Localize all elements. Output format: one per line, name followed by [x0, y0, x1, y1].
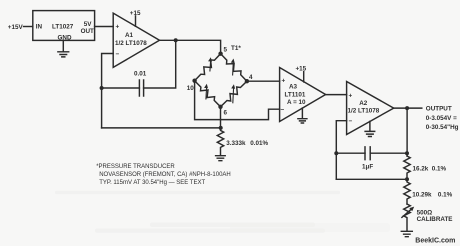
- svg-text:1/2 LT1078: 1/2 LT1078: [115, 40, 147, 47]
- wire A2 inverting input to feedback node: [336, 121, 346, 180]
- capacitor C2 1uF plates: [365, 147, 370, 160]
- svg-text:0.01: 0.01: [134, 70, 147, 77]
- ground (A2): [365, 131, 375, 136]
- svg-text:0.1%: 0.1%: [438, 192, 453, 199]
- wire bridge node 4 to A3 + input: [247, 80, 280, 82]
- wire A1 output to bridge top node 5: [160, 40, 221, 53]
- svg-text:OUT: OUT: [81, 28, 94, 35]
- resistor R1 3.333k: [217, 128, 223, 155]
- node 5 (bridge top): [218, 52, 222, 56]
- bridge arm arrow 5-10: [208, 57, 212, 71]
- svg-text:0-30.54"Hg: 0-30.54"Hg: [426, 124, 459, 131]
- transducer T1 bridge arm 5-10: [195, 54, 221, 81]
- svg-text:TYP. 115mV AT 30.54"Hg — SEE T: TYP. 115mV AT 30.54"Hg — SEE TEXT: [99, 180, 205, 186]
- potentiometer arrow head: [409, 207, 414, 212]
- svg-text:0.01%: 0.01%: [250, 140, 268, 147]
- junction A2 output: [405, 106, 409, 110]
- wire bridge node 6 down to 3.333k junction: [220, 107, 222, 128]
- svg-text:A = 10: A = 10: [287, 99, 306, 106]
- op-amp A1 1/2 LT1078 triangle: [113, 13, 159, 67]
- svg-text:5: 5: [224, 47, 228, 54]
- wire A1 inverting input to feedback: [102, 54, 114, 128]
- svg-text:0-3.054V =: 0-3.054V =: [426, 115, 457, 122]
- svg-text:*PRESSURE TRANSDUCER: *PRESSURE TRANSDUCER: [96, 164, 175, 170]
- junction feedback / 3.333k: [219, 126, 223, 130]
- svg-text:GND: GND: [58, 34, 72, 41]
- svg-text:NOVASENSOR (FREMONT, CA) #NPH-: NOVASENSOR (FREMONT, CA) #NPH-8-100AH: [99, 172, 231, 178]
- svg-text:−: −: [349, 118, 353, 125]
- resistor R3 10.29k: [404, 179, 410, 204]
- bridge arm arrow 4-6: [231, 84, 235, 103]
- junction cap left tap: [100, 86, 104, 90]
- wire regulator GND stem: [62, 40, 64, 51]
- op-amp A3 LT1101 triangle: [280, 68, 326, 122]
- svg-text:4: 4: [249, 74, 253, 81]
- wire +15 supply stub A1: [135, 16, 137, 26]
- node 6 (bridge bottom): [218, 105, 222, 109]
- transducer T1 bridge arm 4-6: [221, 81, 247, 107]
- svg-text:16.2k: 16.2k: [413, 166, 429, 173]
- wire +15V input to regulator: [24, 26, 33, 28]
- op-amp A2 1/2 LT1078 triangle: [347, 82, 394, 135]
- svg-text:BeekIC.com: BeekIC.com: [415, 238, 455, 245]
- svg-text:+: +: [282, 78, 286, 85]
- svg-text:A1: A1: [125, 32, 134, 39]
- ground (output divider): [401, 231, 412, 236]
- svg-text:CALIBRATE: CALIBRATE: [417, 216, 453, 223]
- svg-text:1μF: 1μF: [362, 164, 373, 171]
- resistor R2 16.2k: [404, 156, 410, 179]
- node 10 (bridge left): [192, 79, 196, 83]
- svg-text:LT1027: LT1027: [52, 24, 74, 31]
- ground (A3): [298, 119, 307, 123]
- capacitor C1 0.01 plates: [139, 80, 143, 96]
- transducer T1 bridge arm 5-4: [221, 54, 247, 81]
- junction 1uF left: [334, 151, 338, 155]
- junction 16.2k / 10.29k: [405, 177, 409, 181]
- svg-text:T1*: T1*: [231, 45, 241, 52]
- wire output node down to 16.2k: [406, 108, 408, 156]
- svg-text:IN: IN: [36, 24, 43, 31]
- svg-text:OUTPUT: OUTPUT: [426, 106, 452, 113]
- bridge arm arrow 10-6: [204, 84, 208, 100]
- wire A3 output to A2 + input: [326, 94, 347, 96]
- wire A3 ground stem: [301, 108, 303, 118]
- svg-text:−: −: [281, 107, 285, 114]
- svg-text:−: −: [116, 51, 120, 58]
- wire A2 ground stem: [369, 121, 371, 130]
- wire 1uF cap left lead: [336, 152, 365, 154]
- junction node A1 output / cap tap: [174, 38, 178, 42]
- svg-text:+15: +15: [130, 10, 141, 17]
- svg-text:6: 6: [224, 110, 228, 117]
- svg-text:A3: A3: [289, 84, 298, 91]
- svg-text:+: +: [349, 93, 353, 100]
- potentiometer R4 500 ohm CALIBRATE: [404, 204, 411, 231]
- svg-text:10: 10: [187, 85, 195, 92]
- wire A2 output: [394, 107, 422, 109]
- wire A1 feedback bottom run to 3.333k node: [102, 127, 221, 129]
- junction 1uF right: [405, 151, 409, 155]
- svg-text:1/2 LT1078: 1/2 LT1078: [348, 107, 380, 114]
- svg-text:+: +: [116, 24, 120, 31]
- wire regulator OUT to A1 + input: [95, 26, 114, 28]
- bridge arm arrow 5-4: [231, 59, 235, 76]
- wire bridge node 10 to A3 - input: [195, 81, 280, 120]
- svg-text:+15: +15: [296, 66, 307, 73]
- wire 0.01 cap left lead: [102, 87, 140, 89]
- node 4 (bridge right): [245, 79, 249, 83]
- transducer T1 bridge arm 10-6: [195, 81, 221, 107]
- svg-text:0.1%: 0.1%: [432, 166, 447, 173]
- wire 0.01 cap right lead up to A1 output: [144, 40, 176, 88]
- svg-text:3.333k: 3.333k: [226, 140, 246, 147]
- wire +15 supply stub A3: [303, 72, 305, 82]
- potentiometer wiper arrow: [402, 209, 412, 218]
- wire 1uF cap right lead: [370, 152, 407, 154]
- ground (regulator): [58, 52, 69, 57]
- ground (3.333k): [216, 156, 226, 161]
- svg-text:A2: A2: [359, 100, 368, 107]
- svg-text:LT1101: LT1101: [285, 92, 306, 99]
- wire feedback bottom run: [336, 178, 407, 180]
- svg-text:10.29k: 10.29k: [412, 192, 432, 199]
- svg-text:+15V: +15V: [8, 24, 24, 31]
- faint scan bleed-through marks: [55, 191, 390, 233]
- regulator U1 LT1027 box: [33, 11, 95, 41]
